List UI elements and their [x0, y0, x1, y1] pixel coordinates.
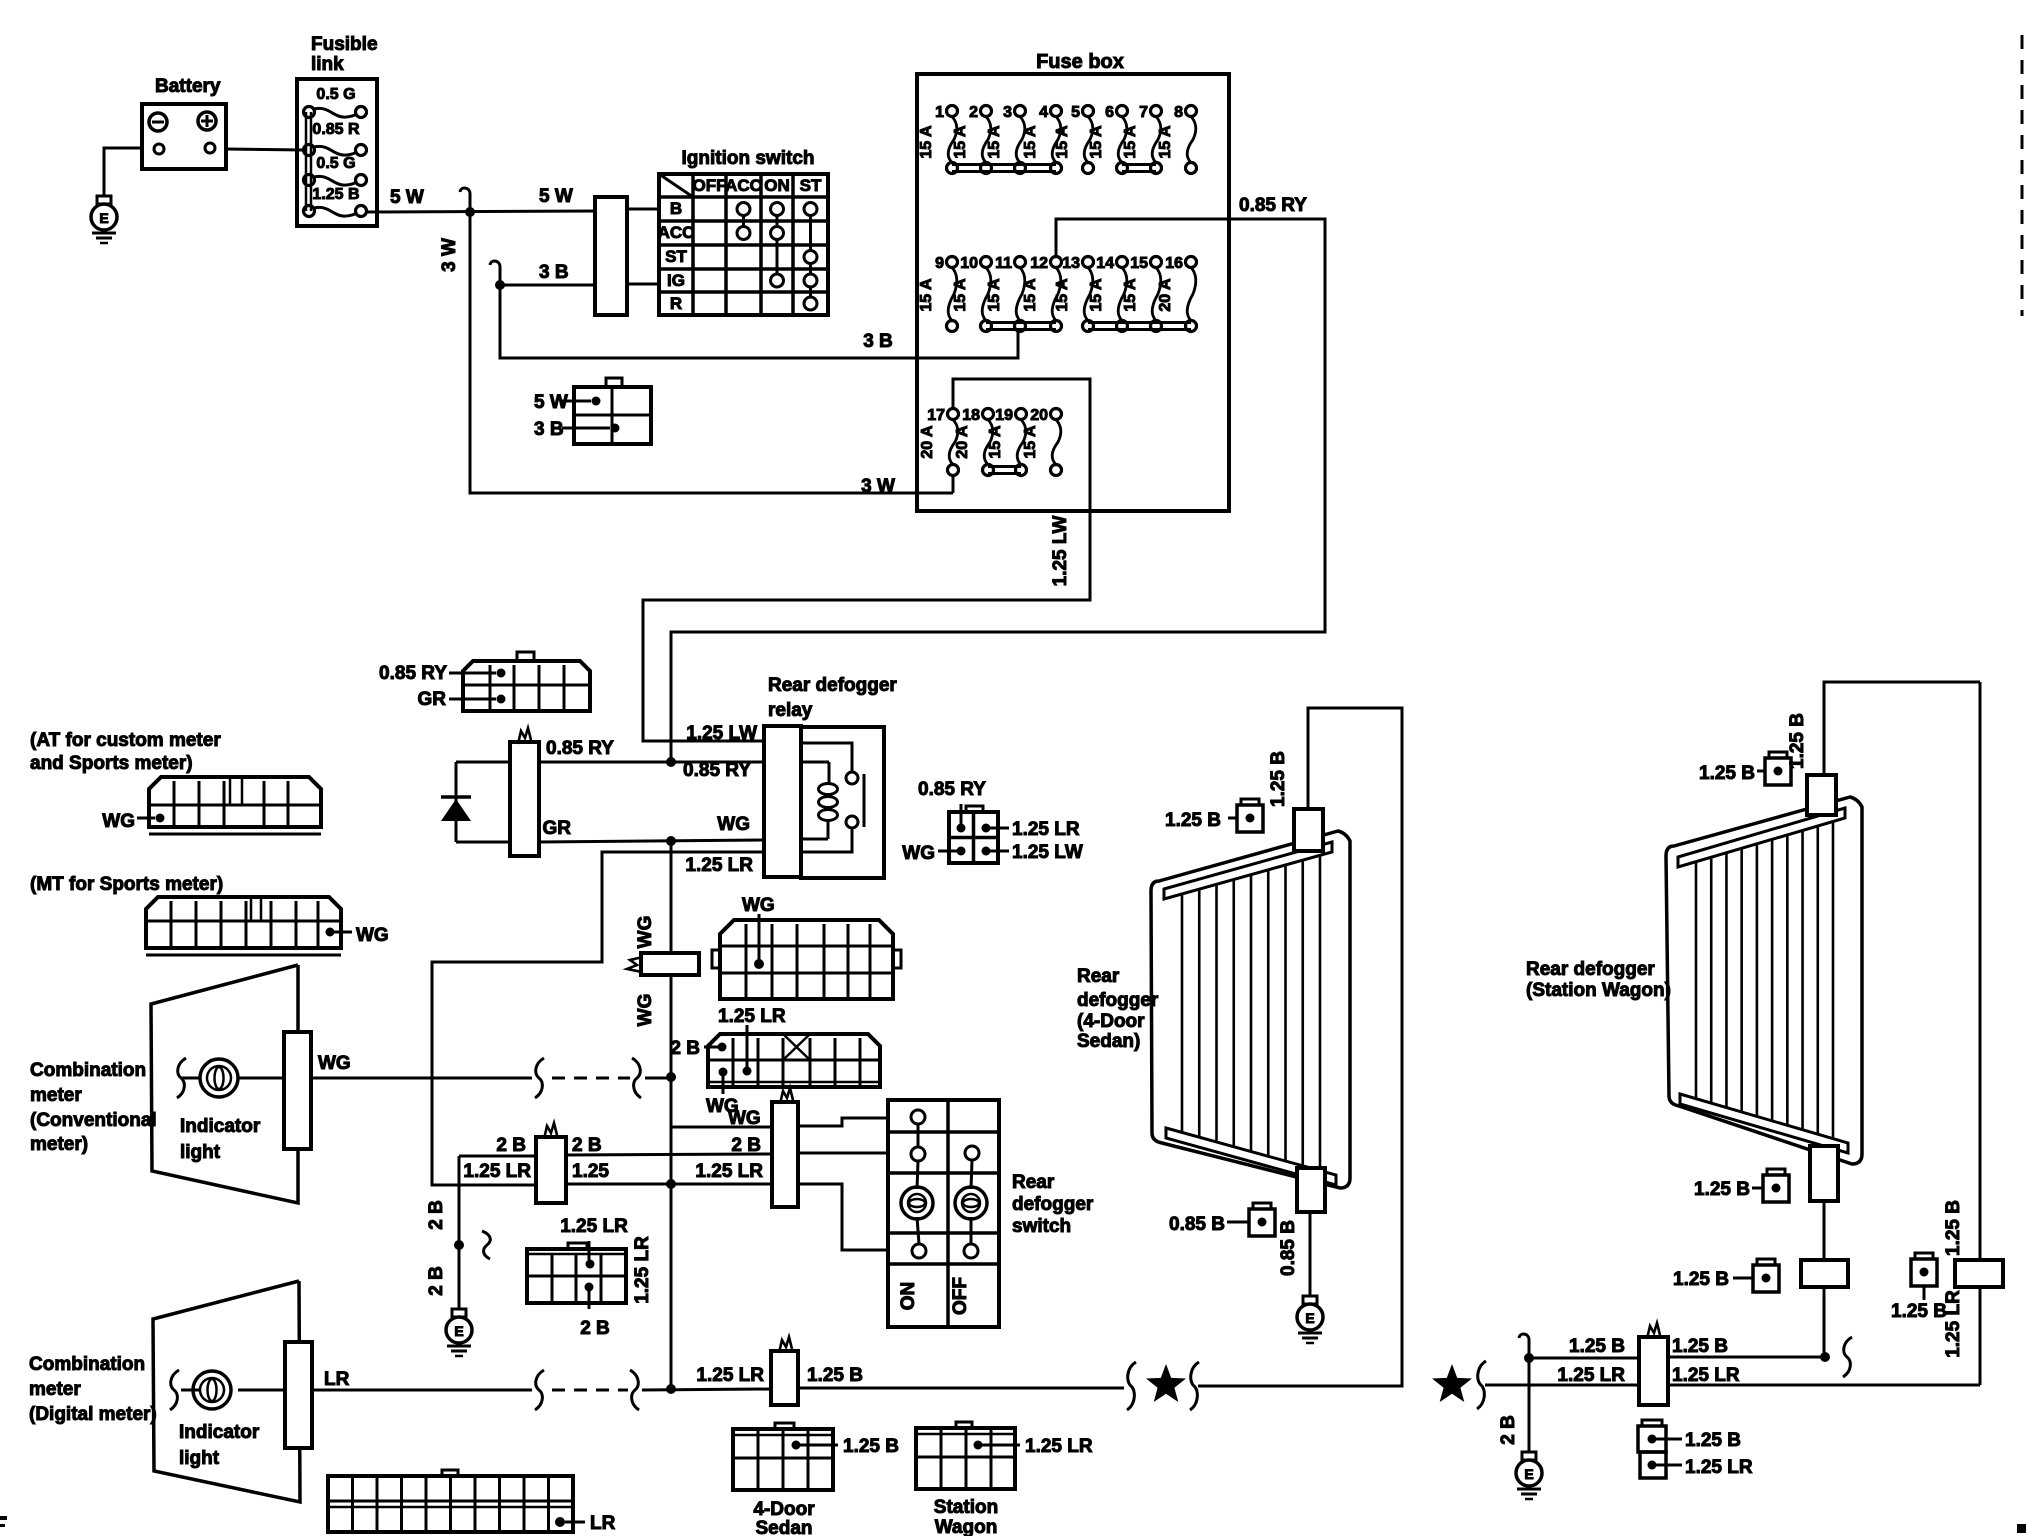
svg-text:0.5 G: 0.5 G	[316, 155, 355, 172]
svg-text:E: E	[1305, 1310, 1314, 1326]
svg-text:defogger: defogger	[1012, 1194, 1094, 1215]
svg-text:2 B: 2 B	[670, 1038, 700, 1059]
svg-text:15 A: 15 A	[918, 125, 935, 159]
svg-text:Fusible: Fusible	[311, 34, 378, 55]
svg-text:2 B: 2 B	[580, 1318, 610, 1339]
svg-text:meter: meter	[29, 1379, 81, 1400]
svg-text:Indicator: Indicator	[180, 1116, 261, 1137]
svg-text:15 A: 15 A	[1022, 125, 1039, 159]
svg-text:1.25 B: 1.25 B	[1943, 1200, 1964, 1256]
svg-text:9: 9	[935, 255, 944, 272]
svg-text:WG: WG	[728, 1108, 761, 1129]
svg-text:1.25 LR: 1.25 LR	[1012, 819, 1080, 840]
svg-text:Combination: Combination	[30, 1060, 146, 1081]
svg-text:IG: IG	[667, 271, 685, 290]
svg-text:and Sports meter): and Sports meter)	[30, 753, 193, 774]
svg-text:3 B: 3 B	[534, 419, 564, 440]
svg-text:15 A: 15 A	[1022, 425, 1039, 459]
svg-text:ON: ON	[764, 176, 790, 195]
svg-text:link: link	[311, 54, 344, 75]
svg-text:1.25 B: 1.25 B	[807, 1365, 863, 1386]
svg-text:5 W: 5 W	[390, 187, 424, 208]
svg-text:1.25 LR: 1.25 LR	[1672, 1365, 1740, 1386]
svg-text:15 A: 15 A	[986, 125, 1003, 159]
svg-text:19: 19	[995, 407, 1013, 424]
svg-text:0.85 R: 0.85 R	[312, 121, 360, 138]
svg-text:0.85 RY: 0.85 RY	[918, 779, 986, 800]
svg-text:WG: WG	[318, 1053, 351, 1074]
svg-text:2 B: 2 B	[572, 1135, 602, 1156]
svg-text:R: R	[670, 294, 682, 313]
svg-text:1.25 B: 1.25 B	[843, 1436, 899, 1457]
svg-text:Rear: Rear	[1012, 1172, 1055, 1193]
svg-text:WG: WG	[635, 994, 656, 1027]
svg-text:1.25 B: 1.25 B	[1699, 763, 1755, 784]
svg-text:OFF: OFF	[950, 1277, 971, 1315]
svg-text:0.85 B: 0.85 B	[1169, 1214, 1225, 1235]
svg-text:WG: WG	[717, 814, 750, 835]
svg-text:LR: LR	[324, 1369, 350, 1390]
svg-text:3: 3	[1003, 104, 1012, 121]
svg-text:15 A: 15 A	[1122, 125, 1139, 159]
svg-text:15 A: 15 A	[1088, 278, 1105, 312]
svg-text:1.25: 1.25	[572, 1161, 609, 1182]
svg-text:11: 11	[995, 255, 1012, 272]
svg-text:20 A: 20 A	[954, 425, 971, 459]
svg-text:1.25 LR: 1.25 LR	[1557, 1365, 1625, 1386]
svg-text:1.25 LR: 1.25 LR	[718, 1006, 786, 1027]
svg-text:ST: ST	[665, 247, 687, 266]
svg-text:1.25 LR: 1.25 LR	[632, 1236, 653, 1304]
svg-text:4-Door: 4-Door	[753, 1499, 815, 1520]
svg-text:4: 4	[1039, 104, 1048, 121]
svg-text:1.25 LR: 1.25 LR	[696, 1365, 764, 1386]
svg-text:1.25 LW: 1.25 LW	[686, 723, 757, 744]
svg-text:15 A: 15 A	[952, 278, 969, 312]
svg-text:ACC: ACC	[725, 176, 762, 195]
svg-text:light: light	[179, 1448, 220, 1469]
svg-text:(MT for Sports meter): (MT for Sports meter)	[30, 874, 223, 895]
svg-text:5 W: 5 W	[539, 186, 573, 207]
svg-text:2: 2	[969, 104, 978, 121]
svg-text:1.25 LW: 1.25 LW	[1050, 516, 1071, 587]
svg-text:OFF: OFF	[693, 176, 727, 195]
svg-text:ACC: ACC	[658, 223, 695, 242]
svg-text:3 B: 3 B	[863, 331, 893, 352]
svg-text:18: 18	[962, 407, 980, 424]
svg-text:E: E	[99, 210, 108, 226]
svg-text:15 A: 15 A	[987, 425, 1004, 459]
svg-text:2 B: 2 B	[731, 1135, 761, 1156]
svg-text:WG: WG	[356, 925, 389, 946]
svg-text:2 B: 2 B	[1498, 1415, 1519, 1445]
svg-text:meter: meter	[30, 1085, 82, 1106]
svg-text:(AT for custom meter: (AT for custom meter	[30, 730, 221, 751]
svg-text:ST: ST	[800, 176, 822, 195]
svg-text:1.25 B: 1.25 B	[1673, 1269, 1729, 1290]
svg-text:(Station Wagon): (Station Wagon)	[1526, 980, 1671, 1001]
svg-text:2 B: 2 B	[426, 1200, 447, 1230]
svg-text:3 B: 3 B	[539, 262, 569, 283]
svg-text:GR: GR	[543, 818, 572, 839]
svg-text:15 A: 15 A	[918, 278, 935, 312]
svg-text:0.85 RY: 0.85 RY	[379, 663, 447, 684]
svg-text:12: 12	[1030, 255, 1048, 272]
svg-text:Sedan: Sedan	[755, 1518, 812, 1536]
svg-text:0.85 B: 0.85 B	[1278, 1220, 1299, 1276]
svg-text:15 A: 15 A	[1122, 278, 1139, 312]
svg-text:1.25 LR: 1.25 LR	[463, 1161, 531, 1182]
svg-text:1.25 LR: 1.25 LR	[1943, 1290, 1964, 1358]
svg-text:2 B: 2 B	[426, 1266, 447, 1296]
svg-text:3 W: 3 W	[439, 238, 460, 272]
svg-text:20 A: 20 A	[919, 425, 936, 459]
svg-text:Station: Station	[934, 1497, 998, 1518]
svg-text:15 A: 15 A	[986, 278, 1003, 312]
svg-text:Ignition switch: Ignition switch	[682, 148, 815, 169]
svg-text:7: 7	[1139, 104, 1148, 121]
svg-text:15 A: 15 A	[1157, 125, 1174, 159]
svg-text:5: 5	[1071, 104, 1080, 121]
svg-text:LR: LR	[590, 1513, 616, 1534]
svg-text:1.25 B: 1.25 B	[1165, 810, 1221, 831]
svg-text:WG: WG	[635, 916, 656, 949]
svg-text:1.25 B: 1.25 B	[1891, 1301, 1947, 1322]
svg-text:WG: WG	[742, 895, 775, 916]
svg-text:0.5 G: 0.5 G	[316, 86, 355, 103]
svg-text:1.25 LW: 1.25 LW	[1012, 842, 1083, 863]
svg-text:0.85 RY: 0.85 RY	[546, 738, 614, 759]
svg-text:Battery: Battery	[155, 76, 221, 97]
svg-text:relay: relay	[768, 700, 813, 721]
svg-text:1.25 B: 1.25 B	[1672, 1336, 1728, 1357]
svg-text:17: 17	[927, 407, 945, 424]
svg-text:Rear: Rear	[1077, 966, 1120, 987]
svg-text:15 A: 15 A	[1022, 278, 1039, 312]
svg-text:20 A: 20 A	[1157, 278, 1174, 312]
svg-text:GR: GR	[418, 689, 447, 710]
svg-text:15 A: 15 A	[1054, 278, 1071, 312]
svg-text:ON: ON	[898, 1282, 919, 1311]
svg-text:20: 20	[1030, 407, 1048, 424]
svg-text:1.25 B: 1.25 B	[1685, 1430, 1741, 1451]
svg-text:Rear defogger: Rear defogger	[1526, 959, 1655, 980]
svg-text:10: 10	[960, 255, 978, 272]
svg-text:meter): meter)	[30, 1134, 88, 1155]
svg-text:switch: switch	[1012, 1216, 1071, 1237]
svg-text:Indicator: Indicator	[179, 1422, 260, 1443]
svg-text:defogger: defogger	[1077, 990, 1159, 1011]
svg-text:2 B: 2 B	[496, 1135, 526, 1156]
svg-text:(4-Door: (4-Door	[1077, 1011, 1145, 1032]
svg-text:WG: WG	[102, 811, 135, 832]
svg-text:(Digital meter): (Digital meter)	[29, 1404, 157, 1425]
svg-text:1.25 LR: 1.25 LR	[560, 1216, 628, 1237]
svg-text:E: E	[1524, 1466, 1533, 1482]
svg-text:1.25 LR: 1.25 LR	[1685, 1457, 1753, 1478]
svg-text:5 W: 5 W	[534, 392, 568, 413]
svg-text:1.25 LR: 1.25 LR	[1025, 1436, 1093, 1457]
svg-text:B: B	[670, 199, 682, 218]
svg-text:1.25 B: 1.25 B	[1694, 1179, 1750, 1200]
svg-text:14: 14	[1096, 255, 1114, 272]
svg-text:15 A: 15 A	[952, 125, 969, 159]
svg-text:0.85 RY: 0.85 RY	[683, 760, 751, 781]
svg-text:3 W: 3 W	[861, 476, 895, 497]
svg-text:15: 15	[1130, 255, 1148, 272]
svg-text:light: light	[180, 1142, 221, 1163]
svg-text:E: E	[454, 1323, 463, 1339]
svg-text:6: 6	[1105, 104, 1114, 121]
svg-text:13: 13	[1062, 255, 1080, 272]
svg-text:WG: WG	[902, 843, 935, 864]
svg-text:1.25 B: 1.25 B	[1268, 751, 1289, 807]
svg-text:0.85 RY: 0.85 RY	[1239, 195, 1307, 216]
svg-text:Sedan): Sedan)	[1077, 1031, 1140, 1052]
svg-text:8: 8	[1174, 104, 1183, 121]
svg-text:Rear defogger: Rear defogger	[768, 675, 897, 696]
svg-text:1.25 B: 1.25 B	[1569, 1336, 1625, 1357]
svg-text:16: 16	[1165, 255, 1183, 272]
svg-text:1.25 B: 1.25 B	[312, 186, 359, 203]
svg-text:Fuse box: Fuse box	[1036, 51, 1124, 73]
svg-text:1.25 LR: 1.25 LR	[695, 1161, 763, 1182]
svg-text:1.25 LR: 1.25 LR	[685, 855, 753, 876]
svg-text:Combination: Combination	[29, 1354, 145, 1375]
svg-text:Wagon: Wagon	[935, 1517, 998, 1536]
svg-text:15 A: 15 A	[1054, 125, 1071, 159]
svg-text:1: 1	[935, 104, 944, 121]
svg-text:15 A: 15 A	[1088, 125, 1105, 159]
svg-text:(Conventional: (Conventional	[30, 1110, 157, 1131]
